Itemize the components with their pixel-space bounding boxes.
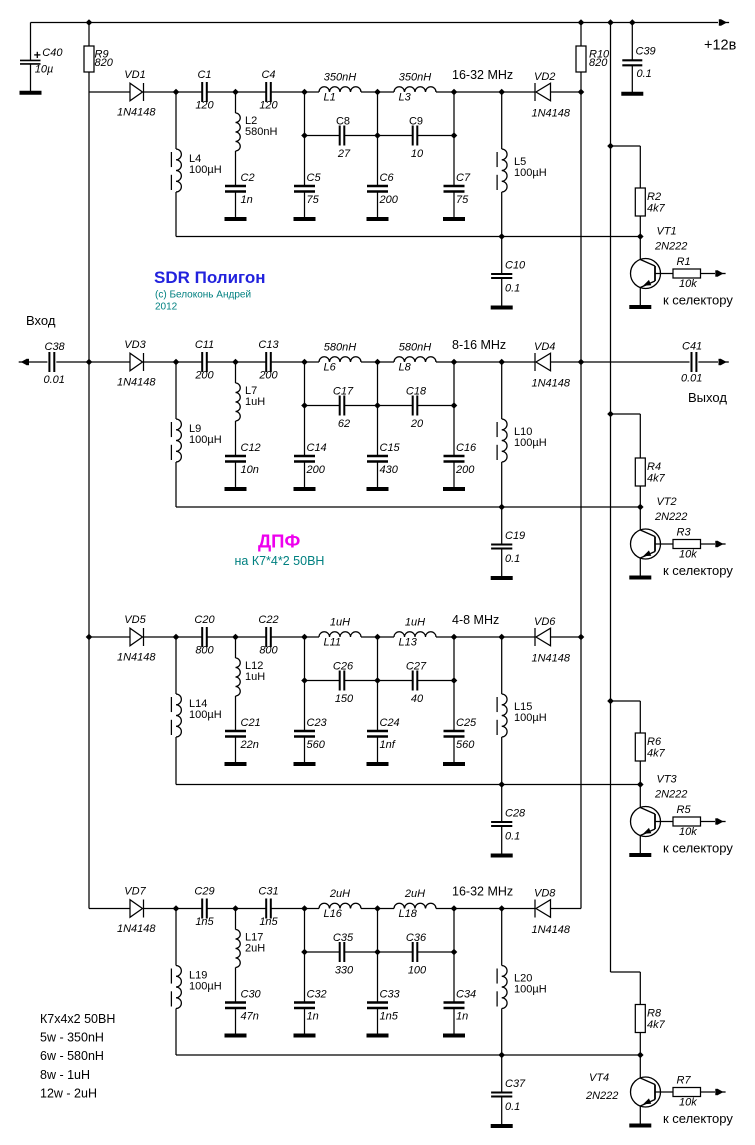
wire bbox=[377, 192, 379, 220]
capacitor C5 bbox=[294, 186, 315, 192]
svg-text:200: 200 bbox=[258, 370, 278, 382]
wire bbox=[304, 462, 306, 490]
ground (C19) bbox=[491, 576, 513, 580]
svg-text:0.1: 0.1 bbox=[505, 1101, 520, 1113]
svg-text:Выход: Выход bbox=[688, 390, 727, 405]
inductor L19 bbox=[171, 966, 181, 1009]
ground (emitter VT4) bbox=[629, 1124, 651, 1128]
wire base VT4 bbox=[655, 1091, 673, 1093]
emitter arrow bbox=[643, 828, 651, 834]
svg-text:1n: 1n bbox=[307, 1011, 319, 1023]
wire bbox=[551, 361, 582, 363]
capacitor C14 bbox=[294, 456, 315, 462]
svg-text:VT2: VT2 bbox=[657, 496, 677, 508]
svg-text:C31: C31 bbox=[258, 886, 278, 898]
node L14 top bbox=[173, 634, 180, 641]
wire bbox=[207, 361, 236, 363]
wire bbox=[305, 405, 340, 407]
ground (emitter VT1) bbox=[629, 305, 651, 309]
svg-text:VT4: VT4 bbox=[589, 1072, 609, 1084]
wire bbox=[501, 92, 503, 149]
svg-text:C23: C23 bbox=[307, 717, 328, 729]
svg-text:C14: C14 bbox=[307, 442, 327, 454]
wire bbox=[453, 1008, 455, 1036]
node bbox=[451, 89, 458, 96]
ground (C15) bbox=[367, 487, 389, 491]
capacitor C37 bbox=[491, 1093, 512, 1097]
wire bbox=[304, 737, 306, 765]
svg-text:2uH: 2uH bbox=[404, 888, 425, 900]
wire bbox=[639, 216, 641, 237]
wire bbox=[207, 636, 236, 638]
wire bbox=[305, 636, 320, 638]
svg-text:4-8 MHz: 4-8 MHz bbox=[452, 613, 499, 627]
emitter arrow bbox=[643, 1098, 651, 1104]
wire bbox=[501, 785, 503, 823]
wire bbox=[144, 91, 177, 93]
ground (C25) bbox=[443, 762, 465, 766]
wire bbox=[361, 908, 378, 910]
svg-text:C38: C38 bbox=[45, 341, 66, 353]
svg-text:VD7: VD7 bbox=[124, 886, 146, 898]
svg-text:VD4: VD4 bbox=[534, 341, 555, 353]
inductor L6 bbox=[319, 357, 361, 362]
svg-text:100µH: 100µH bbox=[189, 709, 222, 721]
node L20 top bbox=[498, 905, 505, 912]
wire bbox=[453, 462, 455, 490]
svg-text:C40: C40 bbox=[42, 47, 63, 59]
diode VD6 bbox=[535, 628, 551, 646]
wire bbox=[377, 1008, 379, 1036]
inductor L15 bbox=[497, 694, 507, 737]
capacitor C11 bbox=[202, 352, 207, 372]
capacitor C20 bbox=[202, 627, 207, 647]
svg-text:C8: C8 bbox=[336, 116, 350, 128]
wire shunt column bbox=[304, 92, 306, 186]
wire bbox=[377, 462, 379, 490]
svg-text:C16: C16 bbox=[456, 442, 477, 454]
svg-text:0.1: 0.1 bbox=[505, 283, 520, 295]
svg-text:L3: L3 bbox=[399, 92, 412, 104]
wire bbox=[501, 826, 503, 855]
node bbox=[374, 359, 381, 366]
wire base VT3 bbox=[655, 821, 673, 823]
capacitor C38 bbox=[49, 352, 54, 372]
wire bbox=[436, 91, 454, 93]
wire shunt column bbox=[304, 909, 306, 1003]
node bbox=[301, 359, 308, 366]
capacitor C6 bbox=[367, 186, 388, 192]
junction rail/R10 bbox=[578, 19, 585, 26]
svg-text:к селектору: к селектору bbox=[663, 563, 733, 578]
svg-text:VD6: VD6 bbox=[534, 616, 556, 628]
svg-text:C36: C36 bbox=[406, 932, 427, 944]
wire bbox=[436, 361, 454, 363]
svg-text:1n5: 1n5 bbox=[380, 1011, 399, 1023]
wire bbox=[378, 361, 395, 363]
wire bbox=[235, 637, 237, 658]
ground (C5) bbox=[294, 217, 316, 221]
wire +12V distribution bus bbox=[610, 23, 612, 973]
wire bbox=[501, 737, 503, 785]
resistor R5 bbox=[673, 817, 701, 826]
node L19 top bbox=[173, 905, 180, 912]
diode VD4 bbox=[535, 353, 551, 371]
svg-text:VD2: VD2 bbox=[534, 71, 555, 83]
wire bbox=[639, 972, 641, 1005]
svg-text:6w - 580nH: 6w - 580nH bbox=[40, 1049, 104, 1063]
wire bbox=[305, 91, 320, 93]
wire bbox=[417, 405, 454, 407]
svg-text:VT3: VT3 bbox=[657, 774, 678, 786]
inductor L10 bbox=[497, 419, 507, 462]
wire bbox=[639, 486, 641, 507]
wire shunt column bbox=[453, 362, 455, 456]
wire bbox=[176, 908, 202, 910]
svg-text:200: 200 bbox=[306, 464, 326, 476]
wire bbox=[501, 549, 503, 578]
svg-text:1n5: 1n5 bbox=[259, 916, 278, 928]
wire bbox=[305, 951, 340, 953]
svg-text:580nH: 580nH bbox=[245, 126, 277, 138]
svg-text:0.1: 0.1 bbox=[637, 68, 652, 80]
wire +12V rail bbox=[31, 22, 719, 24]
capacitor C25 bbox=[444, 731, 465, 737]
resistor R4 bbox=[635, 458, 645, 486]
wire bbox=[701, 273, 716, 275]
svg-text:430: 430 bbox=[380, 464, 399, 476]
svg-text:C6: C6 bbox=[380, 172, 395, 184]
wire bbox=[235, 968, 237, 1003]
svg-text:C18: C18 bbox=[406, 386, 427, 398]
transistor VT1 bbox=[631, 259, 661, 289]
wire bbox=[305, 908, 320, 910]
ground (C24) bbox=[367, 762, 389, 766]
svg-text:R7: R7 bbox=[677, 1075, 692, 1087]
inductor L18 bbox=[394, 903, 436, 908]
wire bbox=[175, 637, 177, 694]
emitter arrow bbox=[643, 550, 651, 556]
wire bbox=[344, 680, 412, 682]
junction bbox=[451, 949, 458, 956]
wire bbox=[454, 91, 502, 93]
svg-text:40: 40 bbox=[411, 693, 424, 705]
svg-text:100: 100 bbox=[408, 965, 427, 977]
wire shunt column bbox=[377, 362, 379, 456]
wire shunt column bbox=[377, 909, 379, 1003]
svg-text:580nH: 580nH bbox=[399, 342, 431, 354]
capacitor C22 bbox=[266, 627, 271, 647]
capacitor C33 bbox=[367, 1003, 388, 1009]
junction bottom line bbox=[498, 1052, 505, 1059]
junction bbox=[451, 402, 458, 409]
svg-text:R4: R4 bbox=[647, 461, 661, 473]
ground (emitter VT3) bbox=[629, 853, 651, 857]
svg-text:L8: L8 bbox=[399, 362, 412, 374]
capacitor C1 bbox=[202, 82, 207, 102]
svg-text:1n5: 1n5 bbox=[195, 916, 214, 928]
junction bbox=[301, 402, 308, 409]
junction left bus row 2 bbox=[86, 359, 93, 366]
wire bbox=[304, 192, 306, 220]
svg-text:200: 200 bbox=[455, 464, 475, 476]
wire bbox=[501, 637, 503, 694]
inductor L5 bbox=[497, 149, 507, 192]
diode VD2 bbox=[535, 83, 551, 101]
inductor L9 bbox=[171, 419, 181, 462]
svg-text:VD8: VD8 bbox=[534, 888, 556, 900]
svg-text:C17: C17 bbox=[333, 386, 354, 398]
svg-text:1N4148: 1N4148 bbox=[117, 377, 156, 389]
svg-text:C34: C34 bbox=[456, 989, 476, 1001]
ground (C21) bbox=[225, 762, 247, 766]
wire bbox=[501, 1009, 503, 1056]
diode VD8 bbox=[535, 900, 551, 918]
svg-text:L18: L18 bbox=[399, 908, 418, 920]
diode VD1 bbox=[130, 83, 144, 101]
wire bbox=[89, 361, 130, 363]
wire bbox=[454, 636, 502, 638]
svg-text:10µ: 10µ bbox=[35, 64, 54, 76]
wire bbox=[501, 1097, 503, 1126]
emitter arrow bbox=[643, 280, 651, 286]
wire bbox=[502, 636, 535, 638]
inductor L16 bbox=[319, 903, 361, 908]
wire emitter VT3 bbox=[639, 836, 641, 856]
wire base VT2 bbox=[655, 543, 673, 545]
svg-text:C37: C37 bbox=[505, 1078, 526, 1090]
capacitor C17 bbox=[340, 396, 345, 416]
capacitor C34 bbox=[444, 1003, 465, 1009]
wire bbox=[580, 72, 582, 92]
wire bbox=[631, 65, 633, 93]
wire bbox=[235, 192, 237, 220]
svg-text:C11: C11 bbox=[195, 339, 214, 351]
capacitor C12 bbox=[225, 456, 246, 462]
wire bbox=[580, 23, 582, 47]
wire collector VT4 bbox=[639, 1055, 641, 1078]
junction collector node bbox=[637, 1052, 644, 1059]
wire bbox=[176, 636, 202, 638]
wire bbox=[701, 543, 716, 545]
wire bbox=[378, 91, 395, 93]
svg-text:1N4148: 1N4148 bbox=[532, 653, 571, 665]
inductor L13 bbox=[394, 632, 436, 637]
node L12 top bbox=[232, 634, 239, 641]
wire bbox=[501, 909, 503, 966]
svg-text:12w - 2uH: 12w - 2uH bbox=[40, 1086, 97, 1100]
svg-text:L16: L16 bbox=[324, 908, 343, 920]
diode VD3 bbox=[130, 353, 144, 371]
node L10 top bbox=[498, 359, 505, 366]
wire bbox=[175, 1009, 177, 1056]
svg-text:R3: R3 bbox=[677, 527, 692, 539]
svg-text:4k7: 4k7 bbox=[647, 473, 666, 485]
svg-text:0.01: 0.01 bbox=[44, 374, 65, 386]
wire bbox=[236, 91, 267, 93]
ground (C30) bbox=[225, 1034, 247, 1038]
svg-text:0.1: 0.1 bbox=[505, 831, 520, 843]
inductor L8 bbox=[394, 357, 436, 362]
svg-text:C20: C20 bbox=[194, 614, 215, 626]
capacitor C15 bbox=[367, 456, 388, 462]
svg-text:10k: 10k bbox=[679, 278, 697, 290]
+12V rail arrow bbox=[719, 19, 729, 26]
diode VD7 bbox=[130, 900, 144, 918]
wire bbox=[631, 23, 633, 61]
wire bbox=[236, 361, 267, 363]
svg-text:16-32 MHz: 16-32 MHz bbox=[452, 885, 513, 899]
svg-text:10k: 10k bbox=[679, 1097, 697, 1109]
capacitor C23 bbox=[294, 731, 315, 737]
svg-text:350nH: 350nH bbox=[399, 72, 431, 84]
wire bbox=[235, 151, 237, 186]
wire bbox=[436, 908, 454, 910]
wire bbox=[454, 908, 502, 910]
wire bbox=[502, 361, 535, 363]
inductor L20 bbox=[497, 966, 507, 1009]
wire bbox=[304, 1008, 306, 1036]
capacitor C2 bbox=[225, 186, 246, 192]
inductor L4 bbox=[171, 149, 181, 192]
node bbox=[451, 359, 458, 366]
svg-text:1N4148: 1N4148 bbox=[117, 652, 156, 664]
wire bbox=[639, 701, 641, 733]
junction bottom line bbox=[498, 781, 505, 788]
junction rail/R9 bbox=[86, 19, 93, 26]
wire bbox=[344, 951, 412, 953]
ground (C16) bbox=[443, 487, 465, 491]
transistor VT3 bbox=[631, 807, 661, 837]
output arrow to selector bbox=[715, 818, 725, 825]
inductor L12 bbox=[236, 658, 241, 696]
wire bbox=[611, 145, 641, 147]
svg-text:C30: C30 bbox=[241, 989, 262, 1001]
svg-text:R5: R5 bbox=[677, 804, 692, 816]
svg-text:47n: 47n bbox=[241, 1011, 259, 1023]
svg-text:560: 560 bbox=[307, 739, 326, 751]
junction bbox=[451, 677, 458, 684]
node L9 top bbox=[173, 359, 180, 366]
node L15 top bbox=[498, 634, 505, 641]
wire bbox=[236, 636, 267, 638]
wire bbox=[501, 237, 503, 275]
node bbox=[451, 905, 458, 912]
ground (C2) bbox=[225, 217, 247, 221]
wire bbox=[30, 64, 32, 93]
wire shunt column bbox=[453, 92, 455, 186]
svg-text:10: 10 bbox=[411, 148, 424, 160]
svg-text:2N222: 2N222 bbox=[654, 511, 687, 523]
node bbox=[301, 634, 308, 641]
node L5 top bbox=[498, 89, 505, 96]
wire bbox=[501, 278, 503, 307]
wire bbox=[207, 91, 236, 93]
inductor L7 bbox=[236, 383, 241, 421]
wire shunt column bbox=[453, 637, 455, 731]
capacitor C31 bbox=[266, 899, 271, 919]
wire bbox=[89, 908, 130, 910]
junction +12V bus bbox=[607, 698, 614, 705]
junction bottom line bbox=[498, 233, 505, 240]
ground (C37) bbox=[491, 1124, 513, 1128]
wire right output bus bbox=[580, 92, 582, 909]
wire output line bbox=[581, 361, 690, 363]
svg-text:+12в: +12в bbox=[704, 38, 737, 54]
wire bbox=[235, 92, 237, 113]
inductor L17 bbox=[236, 930, 241, 968]
svg-text:L11: L11 bbox=[324, 637, 342, 649]
svg-text:0.1: 0.1 bbox=[505, 553, 520, 565]
svg-text:C22: C22 bbox=[258, 614, 278, 626]
svg-text:C21: C21 bbox=[241, 717, 261, 729]
wire shunt column bbox=[377, 92, 379, 186]
output arrow to selector bbox=[715, 270, 725, 277]
wire bbox=[235, 696, 237, 731]
junction bbox=[301, 949, 308, 956]
svg-text:К7х4х2 50ВН: К7х4х2 50ВН bbox=[40, 1012, 115, 1026]
wire bbox=[377, 737, 379, 765]
wire bbox=[344, 135, 412, 137]
transistor VT2 bbox=[631, 529, 661, 559]
svg-text:200: 200 bbox=[379, 194, 399, 206]
svg-text:C27: C27 bbox=[406, 661, 427, 673]
inductor L14 bbox=[171, 694, 181, 737]
node L2 top bbox=[232, 89, 239, 96]
capacitor C7 bbox=[444, 186, 465, 192]
svg-text:C4: C4 bbox=[261, 69, 275, 81]
junction +12V bus bbox=[607, 411, 614, 418]
svg-text:100µH: 100µH bbox=[514, 984, 547, 996]
wire bbox=[88, 72, 90, 92]
ground (C12) bbox=[225, 487, 247, 491]
junction bottom line bbox=[498, 504, 505, 511]
svg-text:C12: C12 bbox=[241, 442, 261, 454]
svg-text:1n: 1n bbox=[456, 1011, 468, 1023]
svg-text:VD5: VD5 bbox=[124, 614, 146, 626]
wire bbox=[701, 1091, 716, 1093]
wire bbox=[551, 908, 582, 910]
wire bbox=[305, 135, 340, 137]
svg-text:10k: 10k bbox=[679, 826, 697, 838]
junction +12V bus bbox=[607, 143, 614, 150]
wire bbox=[175, 192, 177, 237]
svg-text:R2: R2 bbox=[647, 191, 661, 203]
inductor L3 bbox=[394, 87, 436, 92]
svg-text:62: 62 bbox=[338, 418, 350, 430]
wire emitter VT2 bbox=[639, 558, 641, 578]
wire bbox=[344, 405, 412, 407]
svg-text:R6: R6 bbox=[647, 736, 662, 748]
svg-text:C2: C2 bbox=[241, 172, 255, 184]
svg-text:2uH: 2uH bbox=[245, 943, 265, 955]
resistor R1 bbox=[673, 269, 701, 278]
capacitor C39 bbox=[622, 60, 642, 65]
svg-text:4k7: 4k7 bbox=[647, 748, 666, 760]
wire bbox=[271, 908, 305, 910]
wire bbox=[144, 908, 177, 910]
wire bbox=[361, 91, 378, 93]
wire bbox=[88, 23, 90, 47]
resistor R6 bbox=[635, 733, 645, 761]
svg-text:1N4148: 1N4148 bbox=[117, 107, 156, 119]
svg-text:1n: 1n bbox=[241, 194, 253, 206]
svg-text:75: 75 bbox=[456, 194, 469, 206]
svg-text:к селектору: к селектору bbox=[663, 841, 733, 856]
ground (C33) bbox=[367, 1034, 389, 1038]
wire bbox=[175, 909, 177, 966]
wire bbox=[271, 91, 305, 93]
